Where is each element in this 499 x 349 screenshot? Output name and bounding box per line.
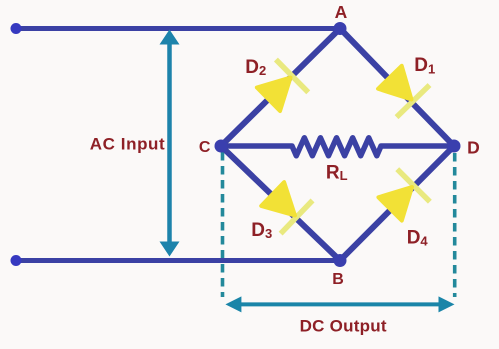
node B (334, 254, 347, 267)
svg-text:B: B (332, 271, 344, 288)
terminal dot bottom-left (11, 255, 22, 266)
svg-text:C: C (199, 139, 211, 156)
dashed line below node D (453, 153, 457, 297)
resistor RL between C and D (221, 138, 454, 156)
wire top AC line (16, 26, 340, 31)
diode D1 (on A-D edge) (373, 61, 429, 117)
DC output double arrow (225, 296, 454, 312)
diode D4 (on B-D edge) (374, 169, 430, 225)
svg-text:A: A (335, 2, 348, 22)
svg-text:D: D (467, 137, 480, 157)
node C (215, 140, 228, 153)
AC input double arrow (160, 30, 180, 257)
wire bridge diamond A-D-B-C (221, 29, 454, 261)
node A (334, 22, 347, 35)
wire bottom AC line (16, 258, 340, 263)
node D (448, 140, 461, 153)
dashed line below node C (221, 152, 225, 297)
svg-text:AC Input: AC Input (90, 135, 166, 154)
svg-text:DC Output: DC Output (300, 316, 387, 335)
diode D2 (on C-A edge) (252, 60, 308, 116)
terminal dot top-left (11, 23, 22, 34)
diode D3 (on C-B edge) (257, 177, 313, 233)
